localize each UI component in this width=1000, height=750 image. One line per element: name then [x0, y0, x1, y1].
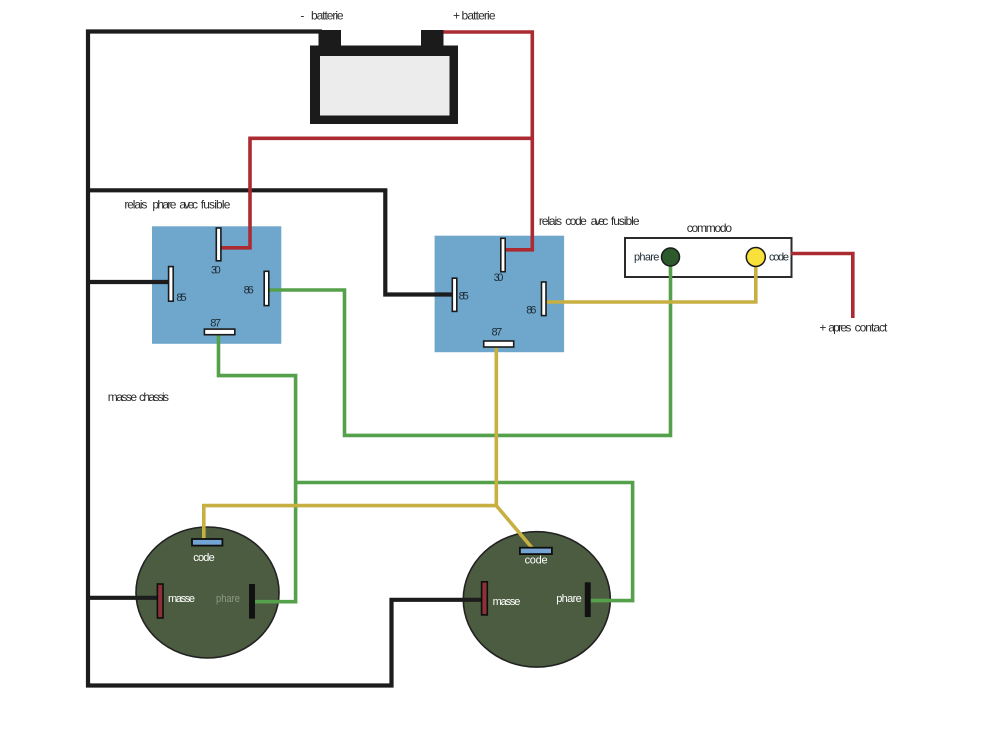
svg-text:87: 87 — [210, 317, 221, 329]
svg-text:fusible: fusible — [201, 198, 231, 212]
svg-text:relais: relais — [539, 214, 562, 228]
svg-text:85: 85 — [459, 290, 469, 302]
svg-text:relais: relais — [124, 198, 147, 212]
svg-text:30: 30 — [211, 265, 221, 277]
svg-text:phare: phare — [634, 252, 659, 264]
svg-text:phare: phare — [216, 593, 240, 605]
svg-text:86: 86 — [526, 305, 536, 317]
svg-text:chassis: chassis — [139, 390, 169, 404]
svg-text:code: code — [525, 554, 548, 566]
svg-text:masse: masse — [168, 593, 195, 605]
svg-text:+: + — [453, 9, 460, 23]
svg-text:phare: phare — [152, 198, 176, 212]
svg-text:avec: avec — [179, 198, 198, 212]
svg-text:apres: apres — [828, 321, 851, 335]
svg-text:87: 87 — [492, 327, 503, 339]
svg-text:code: code — [769, 252, 789, 264]
svg-text:commodo: commodo — [687, 221, 733, 235]
svg-text:code: code — [193, 552, 215, 564]
svg-text:-: - — [300, 9, 304, 23]
svg-text:masse: masse — [493, 596, 521, 608]
svg-text:+: + — [819, 321, 826, 335]
svg-text:batterie: batterie — [462, 9, 496, 23]
svg-text:avec: avec — [591, 214, 609, 228]
svg-text:86: 86 — [244, 285, 254, 297]
svg-text:85: 85 — [176, 292, 186, 304]
svg-text:code: code — [565, 214, 587, 228]
svg-text:phare: phare — [556, 593, 582, 605]
svg-text:masse: masse — [108, 390, 138, 404]
svg-text:contact: contact — [855, 321, 888, 335]
svg-text:fusible: fusible — [611, 214, 640, 228]
svg-text:30: 30 — [494, 272, 504, 284]
svg-text:batterie: batterie — [311, 9, 344, 23]
